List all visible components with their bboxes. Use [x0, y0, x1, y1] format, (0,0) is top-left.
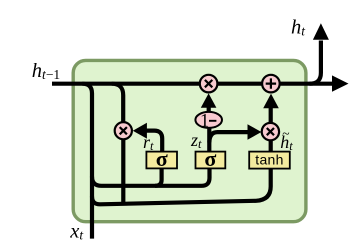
wire sigma1 input stub [155, 168, 162, 186]
one-minus ellipse [195, 112, 222, 132]
wire h main line [52, 82, 333, 86]
arrowhead into candidate multiply [248, 124, 262, 140]
svg-text:~: ~ [282, 126, 289, 141]
arrowhead into plus node [263, 94, 279, 109]
candidate multiply node C4 [262, 123, 279, 140]
svg-text:tanh: tanh [255, 152, 283, 168]
tanh box [249, 152, 290, 169]
svg-text:ht: ht [291, 17, 306, 39]
wire z column sigma2 to one-minus [207, 128, 211, 152]
wire h_t up branch [310, 41, 321, 84]
svg-text:ht−1: ht−1 [32, 60, 60, 82]
wire tanh output up [269, 140, 273, 152]
arrowhead up h_t output [313, 23, 329, 40]
wire one-minus to multiply C1 [207, 107, 211, 112]
wire lower line to tanh [92, 168, 271, 204]
svg-text:xt: xt [69, 221, 84, 243]
wire sigma1 output to reset multiply [146, 131, 163, 152]
GRU cell body [73, 60, 306, 221]
svg-text:1: 1 [200, 112, 209, 132]
plus node C2 on main line [262, 75, 280, 93]
wire z branch right to candidate multiply [209, 132, 248, 142]
wire candidate multiply to plus [269, 108, 273, 123]
svg-text:σ: σ [156, 146, 168, 171]
sigma box z gate [196, 146, 226, 171]
wire branch1 h down + x_t input [82, 84, 92, 239]
wire branch2 h down to reset multiply [112, 84, 124, 123]
wire bus to sigma gates [92, 168, 210, 186]
wire reset multiply output down [121, 139, 125, 202]
multiply node C1 on main line [200, 75, 218, 93]
arrowhead into reset multiply [133, 123, 147, 139]
arrowhead into multiply C1 [201, 93, 217, 107]
reset multiply node C3 [115, 122, 132, 139]
sigma box r gate [146, 146, 177, 171]
svg-text:σ: σ [204, 146, 216, 171]
arrowhead right h_t output [332, 75, 349, 91]
